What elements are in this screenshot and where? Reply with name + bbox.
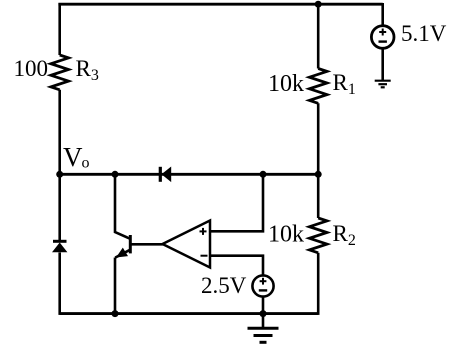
wire below V1 to ground [381, 48, 384, 80]
node Vo junction dot [56, 171, 63, 178]
svg-text:100: 100 [14, 56, 49, 81]
junction dot at x=263 on bottom rail [260, 310, 267, 317]
wire left vertical top (to R3) [58, 3, 61, 55]
resistor R1 [309, 69, 327, 104]
svg-text:R2: R2 [333, 221, 356, 249]
svg-text:5.1V: 5.1V [401, 21, 447, 46]
wire left vertical middle (R3 to D2) [58, 90, 61, 241]
junction dot at x=263 on Vo rail [260, 171, 267, 178]
ground (bottom, below V2) [248, 328, 279, 342]
wire op-amp inverting input to source V2 [210, 256, 263, 276]
wire right vertical top (to R1) [317, 4, 320, 68]
wire op-amp noninverting input to Vo rail [210, 174, 263, 231]
wire right vertical bottom (R2 to bottom rail) [317, 253, 320, 315]
wire emitter branch vertical (Q1 down to bottom rail) [114, 258, 117, 314]
diode D2 (left branch, pointing up) [52, 241, 67, 252]
svg-text:R3: R3 [76, 56, 99, 84]
voltage source V1 5.1V [371, 26, 394, 49]
junction dot at x=318 on Vo rail [315, 171, 322, 178]
svg-text:10k: 10k [268, 71, 304, 97]
op-amp U1 (pointing left) [163, 221, 211, 268]
wire right vertical (R1 to Vo rail) [317, 103, 320, 218]
transistor Q1 (NPN, mirrored) [115, 235, 130, 258]
voltage source V2 2.5V [252, 275, 273, 296]
wire collector branch vertical (Vo rail down to Q1) [115, 174, 130, 238]
svg-text:R1: R1 [333, 70, 356, 98]
resistor R2 [309, 218, 327, 253]
wire base (Q1 to op-amp output) [131, 243, 163, 246]
wire 5.1V branch from top rail [381, 3, 384, 26]
diode D1 (on Vo rail, pointing left) [160, 167, 171, 183]
junction dot top rail at x=318 [315, 1, 322, 8]
wire bottom rail [60, 312, 319, 315]
wire top rail [58, 3, 382, 6]
junction dot at x=115 on bottom rail [112, 310, 119, 317]
wire left vertical bottom (D2 to bottom rail) [58, 253, 61, 315]
resistor R3 [51, 55, 69, 90]
wire below V2 to ground [262, 297, 265, 329]
svg-text:2.5V: 2.5V [201, 273, 247, 298]
ground (top right, below V1) [375, 81, 391, 88]
wire node Vo horizontal rail [60, 173, 319, 176]
svg-text:Vo: Vo [63, 142, 90, 172]
junction dot at x=115 on Vo rail [112, 171, 119, 178]
svg-text:10k: 10k [268, 222, 304, 248]
